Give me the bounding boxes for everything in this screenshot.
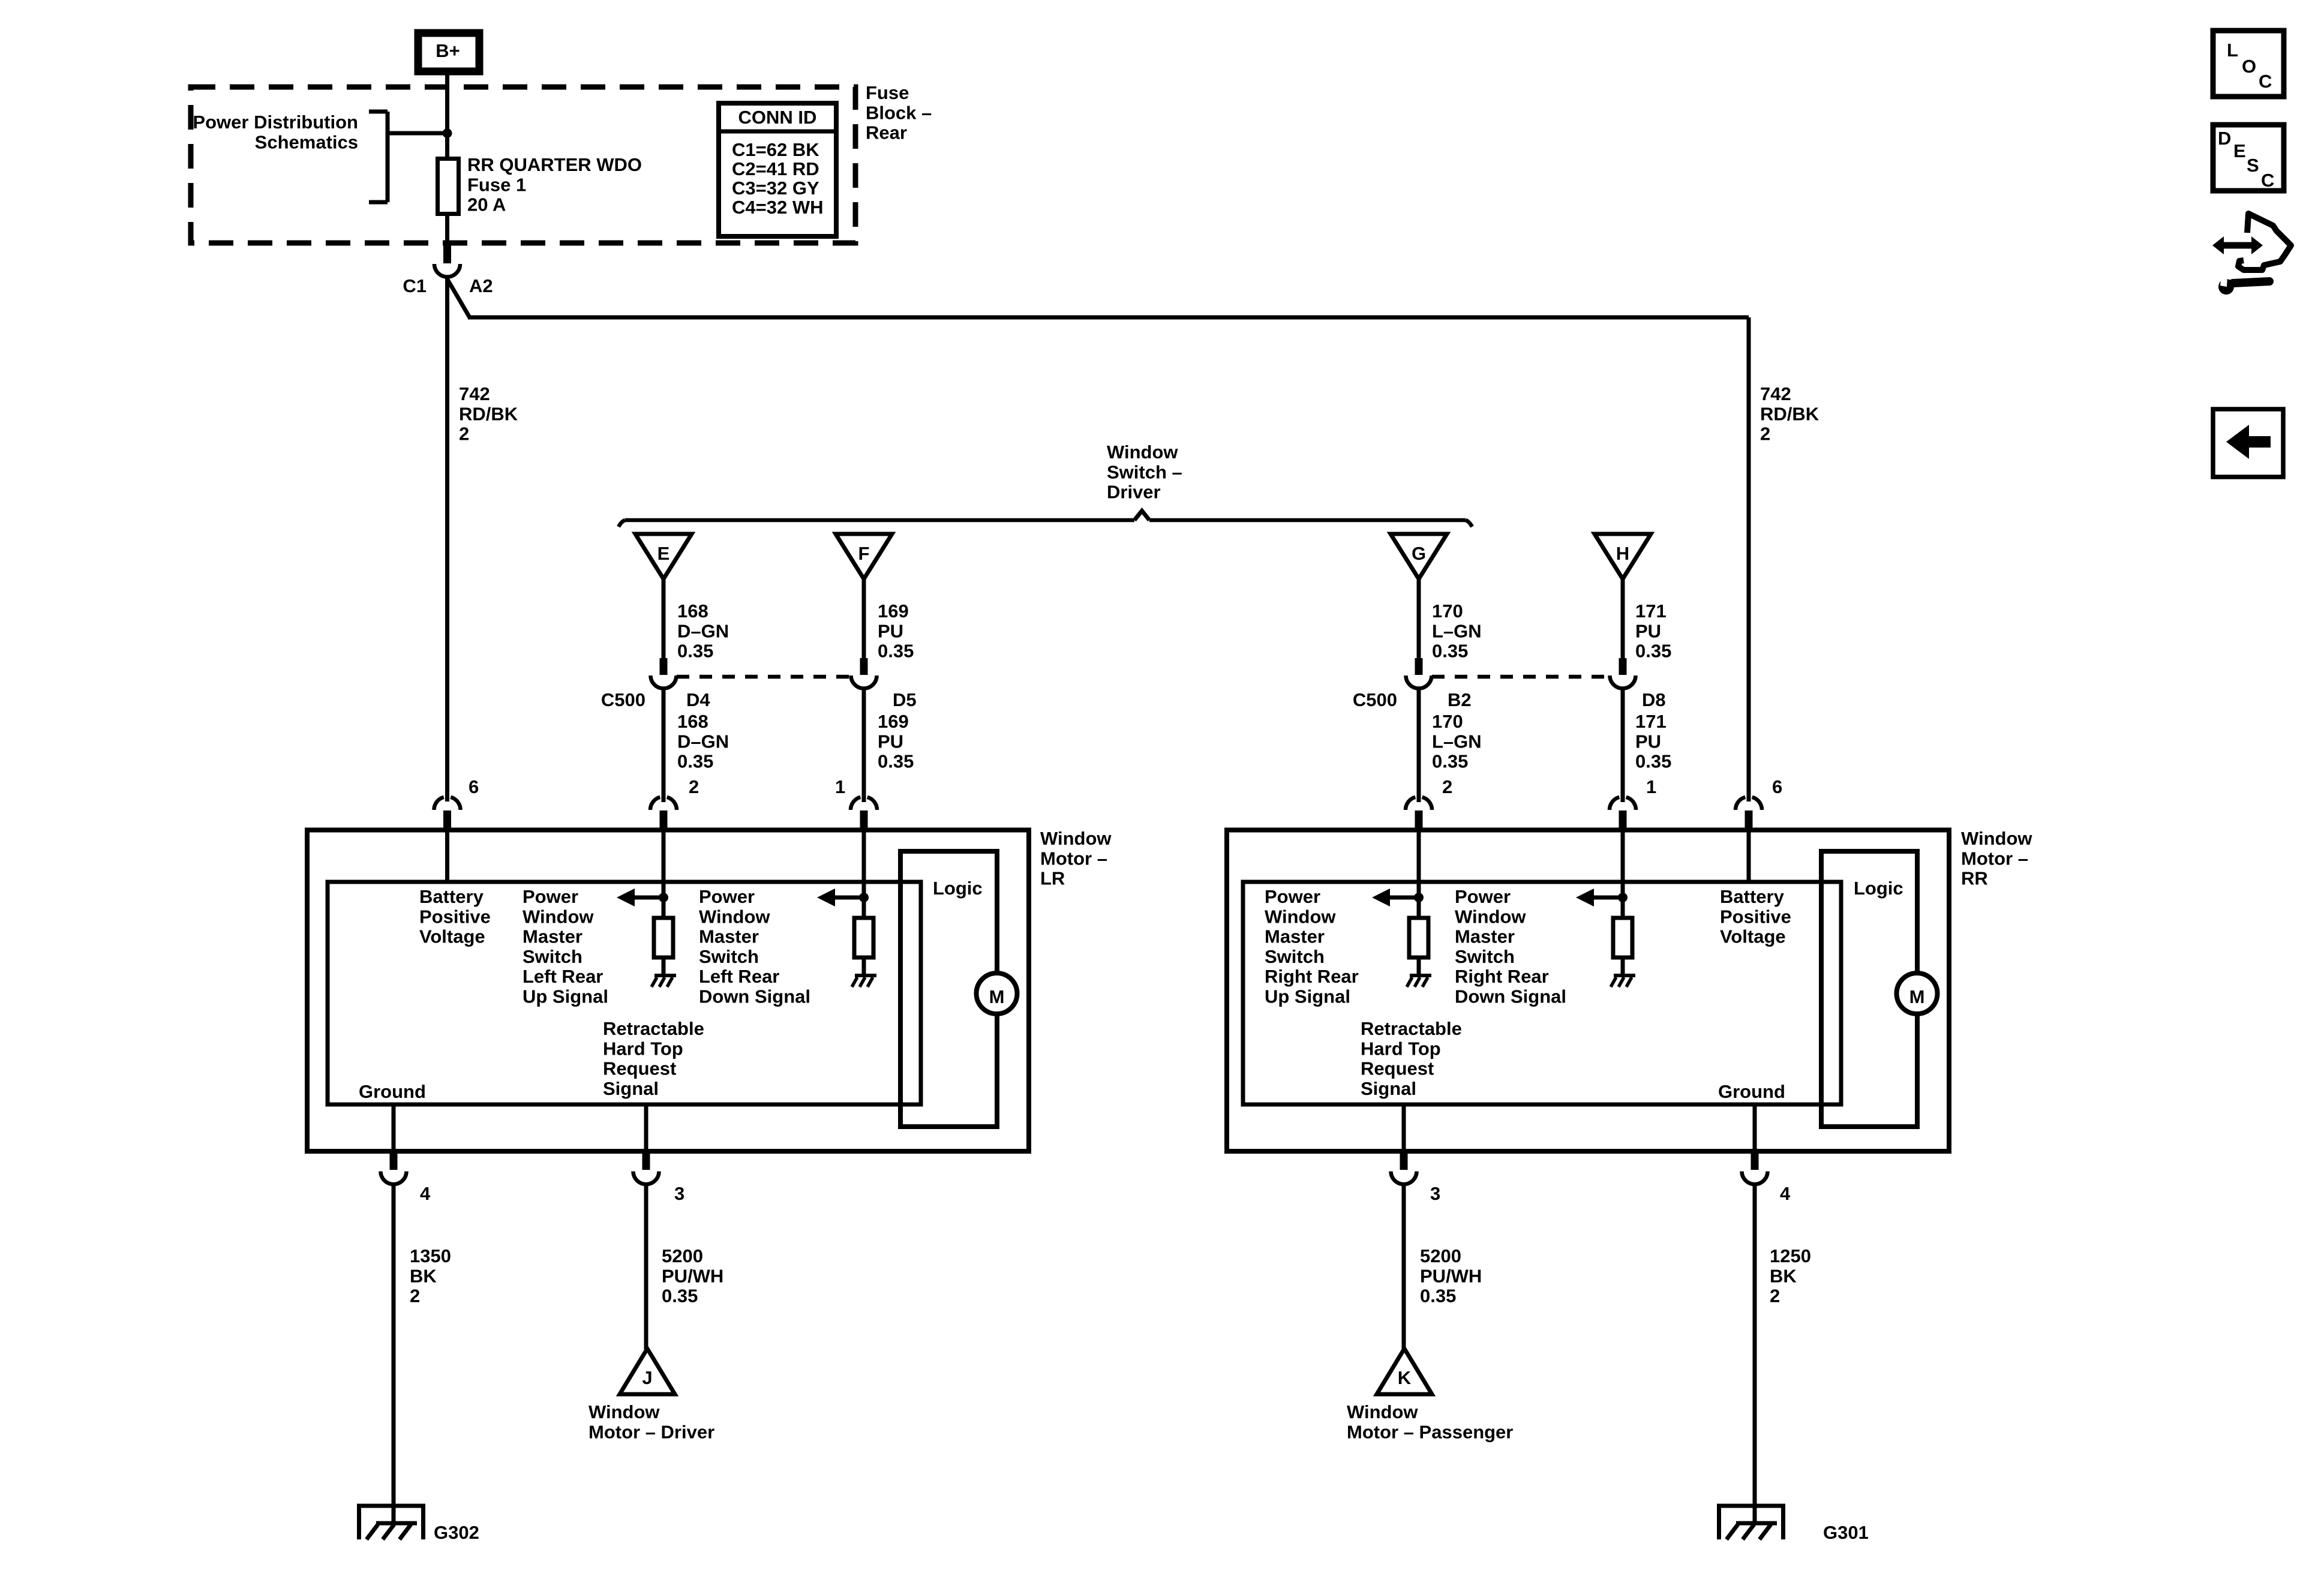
svg-text:168: 168 — [677, 601, 708, 622]
svg-text:M: M — [989, 986, 1005, 1007]
svg-text:0.35: 0.35 — [1432, 751, 1468, 772]
svg-text:Window: Window — [588, 1401, 660, 1422]
svg-text:Driver: Driver — [1107, 482, 1161, 503]
svg-text:Schematics: Schematics — [255, 131, 358, 152]
svg-text:0.35: 0.35 — [878, 751, 914, 772]
svg-text:O: O — [2242, 56, 2256, 77]
svg-text:Logic: Logic — [1854, 878, 1903, 899]
svg-text:2: 2 — [1442, 776, 1452, 797]
svg-text:1350: 1350 — [410, 1245, 451, 1266]
svg-text:Power Distribution: Power Distribution — [193, 112, 358, 133]
svg-text:G: G — [1412, 543, 1426, 564]
svg-text:Down Signal: Down Signal — [1455, 986, 1566, 1007]
svg-text:Left Rear: Left Rear — [699, 966, 779, 987]
svg-text:168: 168 — [677, 711, 708, 732]
svg-text:D5: D5 — [893, 689, 917, 710]
svg-text:3: 3 — [674, 1183, 684, 1204]
svg-text:170: 170 — [1432, 601, 1463, 622]
svg-text:PU: PU — [878, 731, 903, 752]
svg-text:Power: Power — [1265, 886, 1320, 907]
svg-text:G302: G302 — [434, 1522, 479, 1543]
svg-text:0.35: 0.35 — [878, 641, 914, 662]
svg-text:5200: 5200 — [1420, 1245, 1461, 1266]
svg-text:Battery: Battery — [1720, 886, 1785, 907]
svg-text:169: 169 — [878, 711, 909, 732]
svg-text:Signal: Signal — [603, 1078, 659, 1099]
svg-text:CONN ID: CONN ID — [738, 107, 817, 128]
svg-text:Power: Power — [699, 886, 755, 907]
svg-text:RD/BK: RD/BK — [459, 403, 518, 424]
svg-text:K: K — [1398, 1367, 1412, 1388]
svg-text:171: 171 — [1635, 601, 1667, 622]
svg-text:Window: Window — [1107, 442, 1178, 463]
svg-text:D4: D4 — [686, 689, 710, 710]
svg-text:Down Signal: Down Signal — [699, 986, 810, 1007]
svg-text:0.35: 0.35 — [677, 751, 713, 772]
svg-text:Power: Power — [1455, 886, 1511, 907]
svg-text:Window: Window — [1455, 906, 1526, 927]
svg-text:BK: BK — [1770, 1265, 1797, 1286]
svg-text:170: 170 — [1432, 711, 1463, 732]
svg-text:F: F — [858, 543, 870, 564]
svg-text:LR: LR — [1040, 868, 1065, 889]
svg-text:C4=32 WH: C4=32 WH — [732, 197, 823, 218]
svg-text:C500: C500 — [1353, 689, 1397, 710]
svg-text:Voltage: Voltage — [419, 926, 485, 947]
svg-text:Request: Request — [1361, 1058, 1434, 1079]
svg-text:Positive: Positive — [419, 906, 491, 927]
svg-text:Window: Window — [1347, 1401, 1418, 1422]
svg-text:Logic: Logic — [933, 878, 983, 899]
svg-text:Retractable: Retractable — [603, 1018, 704, 1039]
svg-text:Block –: Block – — [866, 102, 932, 123]
svg-text:L–GN: L–GN — [1432, 731, 1482, 752]
svg-text:Switch –: Switch – — [1107, 461, 1182, 482]
svg-text:Right Rear: Right Rear — [1455, 966, 1549, 987]
svg-text:2: 2 — [1770, 1286, 1780, 1307]
svg-text:1250: 1250 — [1770, 1245, 1811, 1266]
svg-text:Window: Window — [1961, 828, 2032, 849]
svg-text:Positive: Positive — [1720, 906, 1791, 927]
svg-text:Master: Master — [699, 926, 759, 947]
svg-text:0.35: 0.35 — [1635, 641, 1671, 662]
svg-text:2: 2 — [1760, 424, 1770, 445]
svg-text:Window: Window — [1040, 828, 1112, 849]
svg-text:0.35: 0.35 — [677, 641, 713, 662]
svg-text:Rear: Rear — [866, 122, 907, 143]
svg-text:A2: A2 — [469, 275, 493, 296]
svg-text:Switch: Switch — [1265, 946, 1325, 967]
svg-text:RR: RR — [1961, 868, 1988, 889]
svg-text:Window: Window — [523, 906, 594, 927]
svg-text:C1=62 BK: C1=62 BK — [732, 139, 819, 160]
svg-text:6: 6 — [1772, 776, 1782, 797]
svg-text:M: M — [1909, 986, 1925, 1007]
svg-text:Signal: Signal — [1361, 1078, 1416, 1099]
svg-text:PU: PU — [1635, 620, 1661, 641]
svg-text:H: H — [1616, 543, 1629, 564]
svg-text:742: 742 — [1760, 383, 1791, 404]
svg-text:C3=32 GY: C3=32 GY — [732, 178, 819, 199]
svg-text:PU: PU — [1635, 731, 1661, 752]
svg-text:Power: Power — [523, 886, 578, 907]
svg-text:Motor –: Motor – — [1040, 848, 1107, 869]
svg-text:Master: Master — [1455, 926, 1515, 947]
svg-text:C2=41 RD: C2=41 RD — [732, 158, 819, 179]
svg-text:171: 171 — [1635, 711, 1667, 732]
svg-text:G301: G301 — [1823, 1522, 1869, 1543]
svg-text:2: 2 — [459, 424, 469, 445]
svg-text:2: 2 — [410, 1286, 420, 1307]
svg-text:Battery: Battery — [419, 886, 484, 907]
svg-text:6: 6 — [469, 776, 479, 797]
svg-text:L: L — [2227, 40, 2238, 61]
svg-text:0.35: 0.35 — [1635, 751, 1671, 772]
svg-text:PU: PU — [878, 620, 903, 641]
svg-text:PU/WH: PU/WH — [662, 1265, 723, 1286]
svg-text:Fuse 1: Fuse 1 — [467, 174, 526, 195]
svg-text:Up Signal: Up Signal — [1265, 986, 1350, 1007]
svg-text:E: E — [2233, 140, 2246, 161]
svg-text:D–GN: D–GN — [677, 731, 729, 752]
svg-text:Switch: Switch — [699, 946, 759, 967]
svg-text:1: 1 — [1646, 776, 1656, 797]
svg-text:PU/WH: PU/WH — [1420, 1265, 1482, 1286]
svg-text:0.35: 0.35 — [1432, 641, 1468, 662]
svg-text:B+: B+ — [436, 40, 460, 61]
svg-text:Right Rear: Right Rear — [1265, 966, 1359, 987]
svg-text:3: 3 — [1430, 1183, 1440, 1204]
svg-text:D8: D8 — [1642, 689, 1666, 710]
svg-text:0.35: 0.35 — [662, 1286, 698, 1307]
svg-text:J: J — [642, 1367, 652, 1388]
svg-text:Fuse: Fuse — [866, 82, 909, 103]
svg-text:4: 4 — [1780, 1183, 1791, 1204]
svg-text:169: 169 — [878, 601, 909, 622]
svg-text:BK: BK — [410, 1265, 437, 1286]
svg-text:0.35: 0.35 — [1420, 1286, 1456, 1307]
svg-text:D: D — [2218, 128, 2231, 149]
svg-text:4: 4 — [420, 1183, 431, 1204]
svg-text:Ground: Ground — [1718, 1081, 1785, 1102]
svg-text:C1: C1 — [403, 275, 427, 296]
svg-text:Ground: Ground — [359, 1081, 426, 1102]
svg-text:Switch: Switch — [1455, 946, 1515, 967]
svg-text:Motor – Driver: Motor – Driver — [588, 1421, 714, 1442]
svg-text:D–GN: D–GN — [677, 620, 729, 641]
svg-text:2: 2 — [689, 776, 699, 797]
svg-text:Up Signal: Up Signal — [523, 986, 608, 1007]
svg-text:Voltage: Voltage — [1720, 926, 1786, 947]
svg-text:RR QUARTER WDO: RR QUARTER WDO — [467, 154, 642, 175]
svg-text:5200: 5200 — [662, 1245, 703, 1266]
svg-text:L–GN: L–GN — [1432, 620, 1482, 641]
svg-text:1: 1 — [835, 776, 845, 797]
svg-text:Left Rear: Left Rear — [523, 966, 603, 987]
svg-text:Switch: Switch — [523, 946, 582, 967]
svg-text:Motor – Passenger: Motor – Passenger — [1347, 1421, 1513, 1442]
svg-text:S: S — [2247, 155, 2259, 176]
svg-text:Motor –: Motor – — [1961, 848, 2028, 869]
svg-text:Window: Window — [699, 906, 770, 927]
svg-text:Hard Top: Hard Top — [603, 1038, 683, 1059]
svg-text:Request: Request — [603, 1058, 676, 1079]
svg-text:742: 742 — [459, 383, 490, 404]
svg-text:C: C — [2259, 71, 2272, 92]
svg-text:B2: B2 — [1448, 689, 1472, 710]
svg-text:E: E — [657, 543, 670, 564]
svg-text:C500: C500 — [601, 689, 645, 710]
svg-text:RD/BK: RD/BK — [1760, 403, 1819, 424]
svg-text:Hard Top: Hard Top — [1361, 1038, 1441, 1059]
svg-text:Master: Master — [523, 926, 582, 947]
svg-text:20 A: 20 A — [467, 194, 506, 215]
svg-text:C: C — [2261, 170, 2274, 191]
svg-text:Window: Window — [1265, 906, 1336, 927]
svg-text:Master: Master — [1265, 926, 1325, 947]
svg-text:Retractable: Retractable — [1361, 1018, 1462, 1039]
